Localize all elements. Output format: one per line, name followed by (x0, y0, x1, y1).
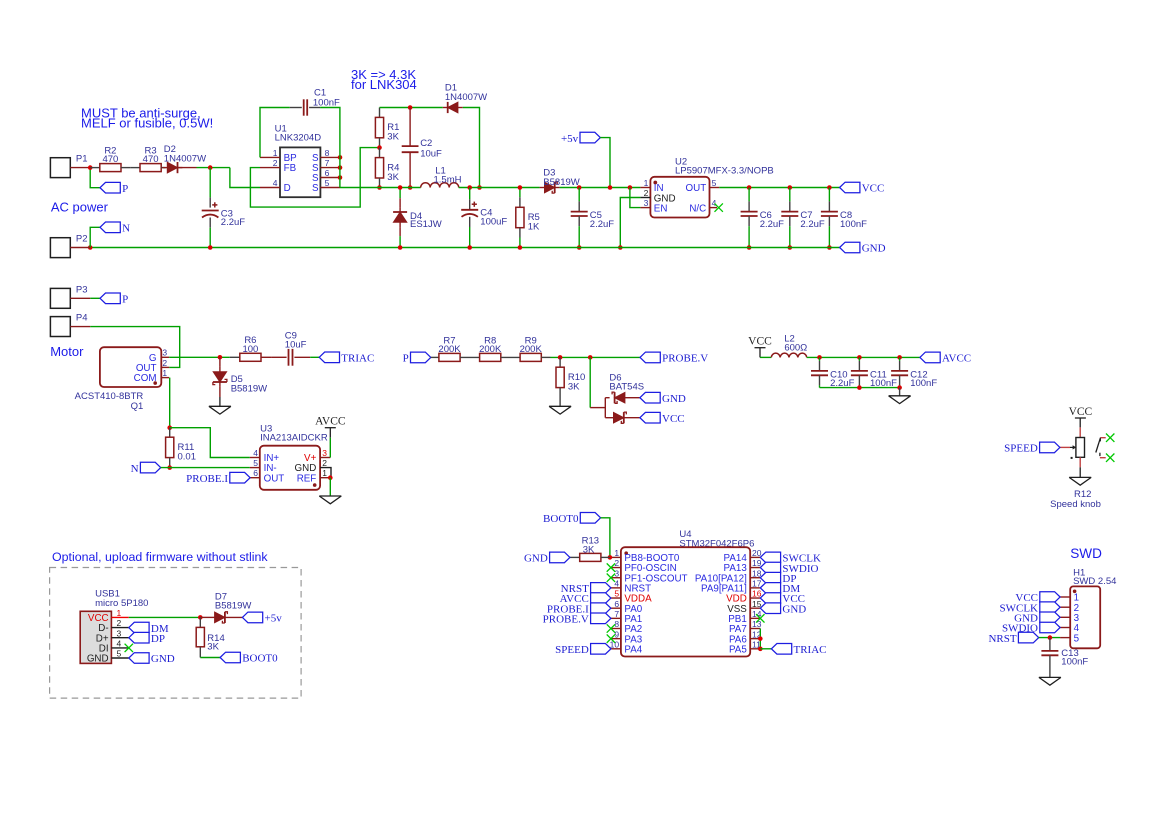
svg-text:SPEED: SPEED (555, 644, 589, 656)
wire divider output (551, 356, 641, 358)
junction C3 bottom (208, 245, 213, 250)
wire NRST to pin5 (1039, 637, 1060, 639)
junction R5 bottom (518, 245, 523, 250)
junction R11 bottom node (167, 465, 172, 470)
wire to TRIAC label (760, 648, 771, 650)
resistor R7 (431, 356, 439, 358)
svg-text:BOOT0: BOOT0 (242, 653, 278, 665)
resistor R5 (519, 188, 521, 198)
svg-text:Q1: Q1 (131, 401, 144, 412)
U4 pin 1 PB8-BOOT0 (611, 556, 621, 558)
global label VCC (840, 182, 860, 193)
H1 pin 5 (1060, 637, 1070, 639)
svg-text:2.2uF: 2.2uF (221, 217, 245, 228)
wire L2 to AVCC (807, 356, 920, 358)
svg-text:200K: 200K (438, 344, 461, 355)
global label AVCC (920, 352, 940, 363)
no-connect X on N/C (715, 203, 723, 211)
wire P3 to P label (90, 297, 100, 299)
svg-text:2.2uF: 2.2uF (590, 219, 614, 230)
svg-text:3: 3 (614, 568, 619, 578)
svg-text:SWD 2.54: SWD 2.54 (1073, 576, 1116, 587)
svg-text:18: 18 (752, 568, 762, 578)
global label N (100, 222, 120, 233)
svg-text:4: 4 (117, 639, 122, 649)
svg-text:NRST: NRST (988, 633, 1016, 645)
pin 4 N/C (710, 207, 718, 209)
USB1 pin 1 VCC (111, 616, 128, 618)
svg-text:B5819W: B5819W (543, 177, 579, 188)
svg-text:200K: 200K (520, 344, 543, 355)
H1 pin 4 (1060, 627, 1070, 629)
svg-text:B5819W: B5819W (215, 601, 251, 612)
svg-text:3K: 3K (207, 642, 219, 653)
global label AVCC at U4 (591, 593, 611, 604)
global label +5v at USB (242, 612, 262, 623)
ground below R12 (1079, 467, 1081, 477)
resistor R11 shunt (169, 428, 171, 438)
svg-text:8: 8 (614, 619, 619, 629)
connector P3 (50, 288, 70, 308)
resistor R3 (130, 167, 140, 169)
global label SWDIO at H1 (1040, 622, 1060, 633)
U4 pin 4 NRST (611, 587, 621, 589)
resistor R8 (480, 353, 501, 361)
svg-text:VCC: VCC (1069, 406, 1093, 418)
svg-text:3: 3 (117, 628, 122, 638)
junction C10 top (817, 355, 822, 360)
svg-text:B5819W: B5819W (231, 383, 267, 394)
svg-text:4: 4 (253, 448, 258, 458)
svg-text:P4: P4 (76, 313, 88, 324)
svg-text:2: 2 (644, 188, 649, 198)
U3 pin 6 OUT (250, 477, 260, 479)
svg-text:1: 1 (162, 368, 167, 378)
no-connect X pin14 (756, 614, 764, 622)
global label PROBE.V at U4 (591, 613, 611, 624)
svg-text:VCC: VCC (862, 183, 885, 195)
svg-text:17: 17 (752, 578, 762, 588)
svg-text:1: 1 (117, 608, 122, 618)
svg-text:+5v: +5v (561, 133, 579, 145)
global label SWCLK at H1 (1040, 602, 1060, 613)
junction R14 top (198, 615, 203, 620)
junction C4 bottom (467, 245, 472, 250)
diode D2 (162, 167, 167, 169)
resistor R4 (379, 148, 381, 158)
H1 pin 1 (1060, 596, 1070, 598)
capacitor C11 (858, 357, 860, 361)
U4 pin 2 PF0-OSCIN (611, 567, 621, 569)
capacitor C1 (260, 108, 290, 158)
junction C5 bottom (577, 245, 582, 250)
junction C8 bottom (827, 245, 832, 250)
global label VCC at D6 (640, 412, 660, 423)
svg-text:P: P (122, 294, 128, 306)
wire D2 cathode to node (178, 167, 197, 169)
svg-text:D: D (284, 183, 291, 194)
connector P2 (50, 238, 70, 258)
wire node down to U1 pin D (230, 168, 260, 188)
global label PROBE.I at U3 (230, 472, 250, 483)
wire C9 to TRIAC label (310, 356, 319, 358)
svg-text:200K: 200K (479, 344, 502, 355)
svg-text:100nF: 100nF (1061, 657, 1088, 668)
capacitor C10 (819, 357, 821, 361)
junction D5 node (218, 355, 223, 360)
no-connect X switch bottom (1106, 454, 1114, 462)
svg-text:6: 6 (325, 168, 330, 178)
U3 pin 1 REF (320, 477, 330, 479)
svg-text:DP: DP (151, 633, 165, 645)
svg-text:SPEED: SPEED (1004, 443, 1038, 455)
resistor R6 (230, 356, 240, 358)
U4 pin 6 PA0 (611, 607, 621, 609)
junction D4 top (398, 185, 403, 190)
global label NRST at H1 (1018, 632, 1038, 643)
svg-text:GND: GND (782, 603, 806, 615)
resistor R2 (90, 167, 100, 169)
U4 pin 8 PA2 (611, 627, 621, 629)
global label SPEED at U4 (591, 644, 611, 655)
svg-text:4: 4 (712, 198, 717, 208)
svg-text:TRIAC: TRIAC (341, 353, 374, 365)
global label BOOT0 at U4 (580, 513, 600, 524)
svg-text:GND: GND (662, 393, 686, 405)
USB1 pin 2 D- (111, 627, 128, 629)
svg-text:BAT54S: BAT54S (609, 382, 644, 393)
U4 pin 7 PA1 (611, 617, 621, 619)
junction C7 top (788, 185, 793, 190)
svg-text:N/C: N/C (689, 203, 706, 214)
svg-text:3K: 3K (568, 381, 580, 392)
svg-text:2.2uF: 2.2uF (760, 219, 784, 230)
U4 pin 15 VSS (750, 607, 760, 609)
global label DM at U4 (760, 583, 780, 594)
svg-text:100nF: 100nF (910, 378, 937, 389)
wire R14 to BOOT0 (200, 657, 220, 659)
svg-text:GND: GND (524, 553, 548, 565)
resistor R10 (559, 357, 561, 367)
junctions U1 source pins (338, 155, 343, 160)
junction P1 node (88, 165, 93, 170)
svg-text:470: 470 (143, 154, 159, 165)
svg-text:3: 3 (162, 348, 167, 358)
power flag +5v at regulator (580, 132, 600, 143)
svg-text:LNK3204D: LNK3204D (275, 133, 322, 144)
svg-text:3K: 3K (387, 172, 399, 183)
U4 pin 20 PA14 (750, 556, 760, 558)
wire FB feedback loop (250, 148, 379, 208)
junction C12 top (897, 355, 902, 360)
svg-text:6: 6 (253, 468, 258, 478)
global label GND (840, 242, 860, 253)
svg-text:19: 19 (752, 558, 762, 568)
junction REF/GND node (328, 475, 333, 480)
junction D6 tap (588, 355, 593, 360)
svg-text:13: 13 (752, 619, 762, 629)
U4 pin 5 VDDA (611, 597, 621, 599)
svg-text:7: 7 (325, 158, 330, 168)
connector P1 (50, 158, 70, 178)
svg-text:1N4007W: 1N4007W (164, 153, 206, 164)
svg-text:P: P (403, 353, 409, 365)
ground below C13 (1039, 676, 1061, 678)
junction R5 top (518, 185, 523, 190)
U4 pin 10 PA4 (611, 648, 621, 650)
svg-text:2: 2 (162, 358, 167, 368)
global label N at R11 (140, 462, 160, 473)
junction C4 node (467, 185, 472, 190)
svg-text:100nF: 100nF (313, 97, 340, 108)
U4 pin 12 PA6 (750, 638, 760, 640)
svg-text:5: 5 (325, 178, 330, 188)
diode D6 BAT54S (590, 407, 605, 409)
diode D7 (200, 616, 214, 618)
inductor L1 (421, 183, 431, 188)
svg-text:15: 15 (752, 599, 762, 609)
dashed optional box (50, 568, 302, 699)
wire PA7/PA6/PA5 tie (759, 628, 761, 648)
wire Q1 COM down to R11 (169, 378, 171, 428)
pin 5 OUT (710, 187, 720, 189)
junction C13 top (1048, 635, 1053, 640)
global label GND at U4 (760, 603, 780, 614)
connector P4 (50, 317, 70, 337)
svg-text:2: 2 (273, 158, 278, 168)
svg-text:Motor: Motor (50, 344, 84, 359)
no-connect X switch top (1106, 434, 1114, 442)
pin 1 IN (640, 187, 650, 189)
svg-text:GND: GND (151, 653, 175, 665)
svg-text:16: 16 (752, 589, 762, 599)
wire L1 to D3 (459, 187, 540, 189)
capacitor C4 (469, 188, 471, 200)
capacitor C3 (209, 168, 211, 198)
junction C6 bottom (747, 245, 752, 250)
svg-text:AVCC: AVCC (315, 416, 346, 428)
global label GND at H1 (1040, 612, 1060, 623)
svg-text:5: 5 (712, 178, 717, 188)
svg-text:4: 4 (273, 178, 278, 188)
junction D1 drop (477, 185, 482, 190)
diode D4 (399, 188, 401, 199)
U3 pin 4 IN+ (250, 457, 260, 459)
svg-text:PROBE.I: PROBE.I (186, 473, 228, 485)
global label GND at R13 (550, 552, 570, 563)
no-connect X pin8 (607, 624, 615, 632)
junction pin11 (758, 647, 763, 652)
global label DP at U4 (760, 572, 780, 583)
junction C2 top (408, 105, 413, 110)
Q1 pin 2 OUT (161, 366, 169, 368)
svg-text:OUT: OUT (686, 183, 707, 194)
svg-text:AVCC: AVCC (942, 353, 971, 365)
wire switch-node rail (340, 187, 421, 189)
svg-text:2: 2 (117, 618, 122, 628)
U3 pin 2 GND (320, 468, 331, 478)
junction +5v node (608, 185, 613, 190)
svg-text:REF: REF (297, 473, 317, 484)
wire to U3 IN+ (170, 428, 250, 458)
svg-text:PROBE.V: PROBE.V (543, 614, 589, 626)
svg-text:600Ω: 600Ω (784, 343, 807, 354)
R12 switch contacts (1100, 437, 1105, 439)
svg-text:6: 6 (614, 599, 619, 609)
svg-text:N: N (122, 223, 130, 235)
svg-text:10uF: 10uF (285, 339, 307, 350)
svg-text:micro 5P180: micro 5P180 (95, 598, 148, 609)
svg-text:2: 2 (614, 558, 619, 568)
svg-text:PA5: PA5 (729, 644, 747, 655)
junction R11 top node (167, 425, 172, 430)
svg-text:3: 3 (322, 448, 327, 458)
wire REF to ground (329, 478, 331, 496)
svg-text:OUT: OUT (264, 473, 285, 484)
svg-text:+5v: +5v (265, 613, 283, 625)
no-connect X pin3 (607, 574, 615, 582)
resistor R1 (379, 108, 381, 118)
global label P (100, 182, 120, 193)
wire Q1 gate to R6 (169, 356, 230, 358)
wire D1 to output node (463, 108, 480, 188)
pin 2 GND (640, 197, 650, 199)
wire P2 to N label (90, 227, 100, 247)
ground below U3 (319, 495, 341, 497)
inductor L2 (771, 353, 780, 357)
no-connect X USB DI (125, 644, 133, 652)
U4 pin 14 PB1 (750, 617, 760, 619)
junction C3 node (208, 165, 213, 170)
junction R1/R4 divider (377, 145, 382, 150)
svg-text:P3: P3 (76, 284, 88, 295)
capacitor C8 (828, 188, 830, 202)
global label SPEED at R12 (1040, 442, 1060, 453)
U3 pin 3 V+ (320, 457, 330, 459)
pin 3 EN (640, 207, 650, 209)
svg-text:C2: C2 (420, 138, 432, 149)
svg-text:9: 9 (614, 629, 619, 639)
svg-text:3K: 3K (387, 132, 399, 143)
diode D3 (540, 187, 545, 189)
diode D5 (219, 357, 221, 367)
junction R4 bottom (377, 185, 382, 190)
svg-text:1: 1 (614, 548, 619, 558)
capacitor C9 (271, 356, 287, 358)
global label VCC at U4 (760, 593, 780, 604)
svg-text:5: 5 (614, 589, 619, 599)
wire U2 GND down (620, 198, 640, 248)
svg-text:S: S (312, 183, 319, 194)
no-connect X pin2 (607, 563, 615, 571)
global label GND at D6 (640, 392, 660, 403)
svg-text:P: P (122, 183, 128, 195)
capacitor C13 (1049, 638, 1051, 651)
capacitor C7 (789, 188, 791, 202)
svg-text:MELF or fusible, 0.5W!: MELF or fusible, 0.5W! (81, 115, 213, 130)
svg-text:470: 470 (102, 154, 118, 165)
ground below D5 (209, 405, 231, 407)
svg-text:3: 3 (644, 198, 649, 208)
svg-text:P1: P1 (76, 154, 88, 165)
global label SWDIO at U4 (760, 562, 780, 573)
svg-text:AC power: AC power (51, 200, 109, 215)
svg-text:ES1JW: ES1JW (410, 219, 442, 230)
svg-text:PA4: PA4 (624, 644, 642, 655)
svg-text:GND: GND (87, 654, 109, 665)
global label BOOT0 at USB (220, 652, 240, 663)
global label DM at USB (129, 622, 149, 633)
wire P1 to P label (90, 168, 100, 188)
wire VCC to L2 (760, 356, 771, 358)
global label DP at USB (129, 632, 149, 643)
svg-text:10: 10 (610, 639, 620, 649)
H1 pin 2 (1060, 606, 1070, 608)
junction C8 top (827, 185, 832, 190)
svg-text:5: 5 (1074, 633, 1080, 644)
svg-text:1: 1 (644, 178, 649, 188)
USB1 pin 4 DI (111, 647, 128, 649)
svg-text:BOOT0: BOOT0 (543, 513, 579, 525)
junction C7 bottom (788, 245, 793, 250)
svg-text:20: 20 (752, 548, 762, 558)
svg-text:VCC: VCC (748, 336, 772, 348)
svg-text:1: 1 (273, 148, 278, 158)
wire bottom GND rail (90, 247, 839, 249)
svg-text:GND: GND (862, 243, 886, 255)
wire P4 to Q1 OUT (90, 327, 179, 368)
svg-text:2.2uF: 2.2uF (800, 219, 824, 230)
USB1 pin 3 D+ (111, 637, 128, 639)
svg-text:TRIAC: TRIAC (794, 644, 827, 656)
global label VCC at H1 (1040, 592, 1060, 603)
wire to U3 IN- (161, 467, 250, 469)
svg-text:Optional, upload firmware with: Optional, upload firmware without stlink (52, 550, 268, 564)
Q1 pin 3 G (161, 356, 169, 358)
wire C1 to source pins (320, 108, 340, 188)
global label GND at USB (129, 653, 149, 664)
no-connect X pin9 (607, 634, 615, 642)
svg-text:PROBE.V: PROBE.V (662, 353, 708, 365)
junction C11 top (857, 355, 862, 360)
wire EN tie (630, 188, 641, 208)
svg-text:2: 2 (322, 458, 327, 468)
capacitor C5 (578, 188, 580, 202)
capacitor C2 (409, 108, 411, 147)
ground below R10 (549, 405, 571, 407)
junction pin1 node (608, 555, 613, 560)
wire OUT rail to VCC (719, 187, 839, 189)
pin-1 mark U3 (313, 483, 317, 487)
svg-text:100nF: 100nF (840, 219, 867, 230)
svg-text:5: 5 (117, 649, 122, 659)
Q1 pin 1 COM (161, 377, 169, 379)
global label TRIAC at U4 (771, 644, 791, 655)
svg-text:0.01: 0.01 (178, 451, 197, 462)
junction C5 top (577, 185, 582, 190)
junction C6 top (747, 185, 752, 190)
capacitor C6 (748, 188, 750, 202)
svg-text:EN: EN (654, 203, 668, 214)
svg-text:7: 7 (614, 609, 619, 619)
global label P at P3 (100, 293, 120, 304)
resistor R14 (199, 617, 201, 627)
global label PROBE.I at U4 (591, 603, 611, 614)
triac Q1 ACST410-8BTR (100, 347, 161, 387)
svg-text:10uF: 10uF (420, 148, 442, 159)
wire to D6 common (589, 357, 591, 407)
R12 wiper (1060, 446, 1070, 448)
